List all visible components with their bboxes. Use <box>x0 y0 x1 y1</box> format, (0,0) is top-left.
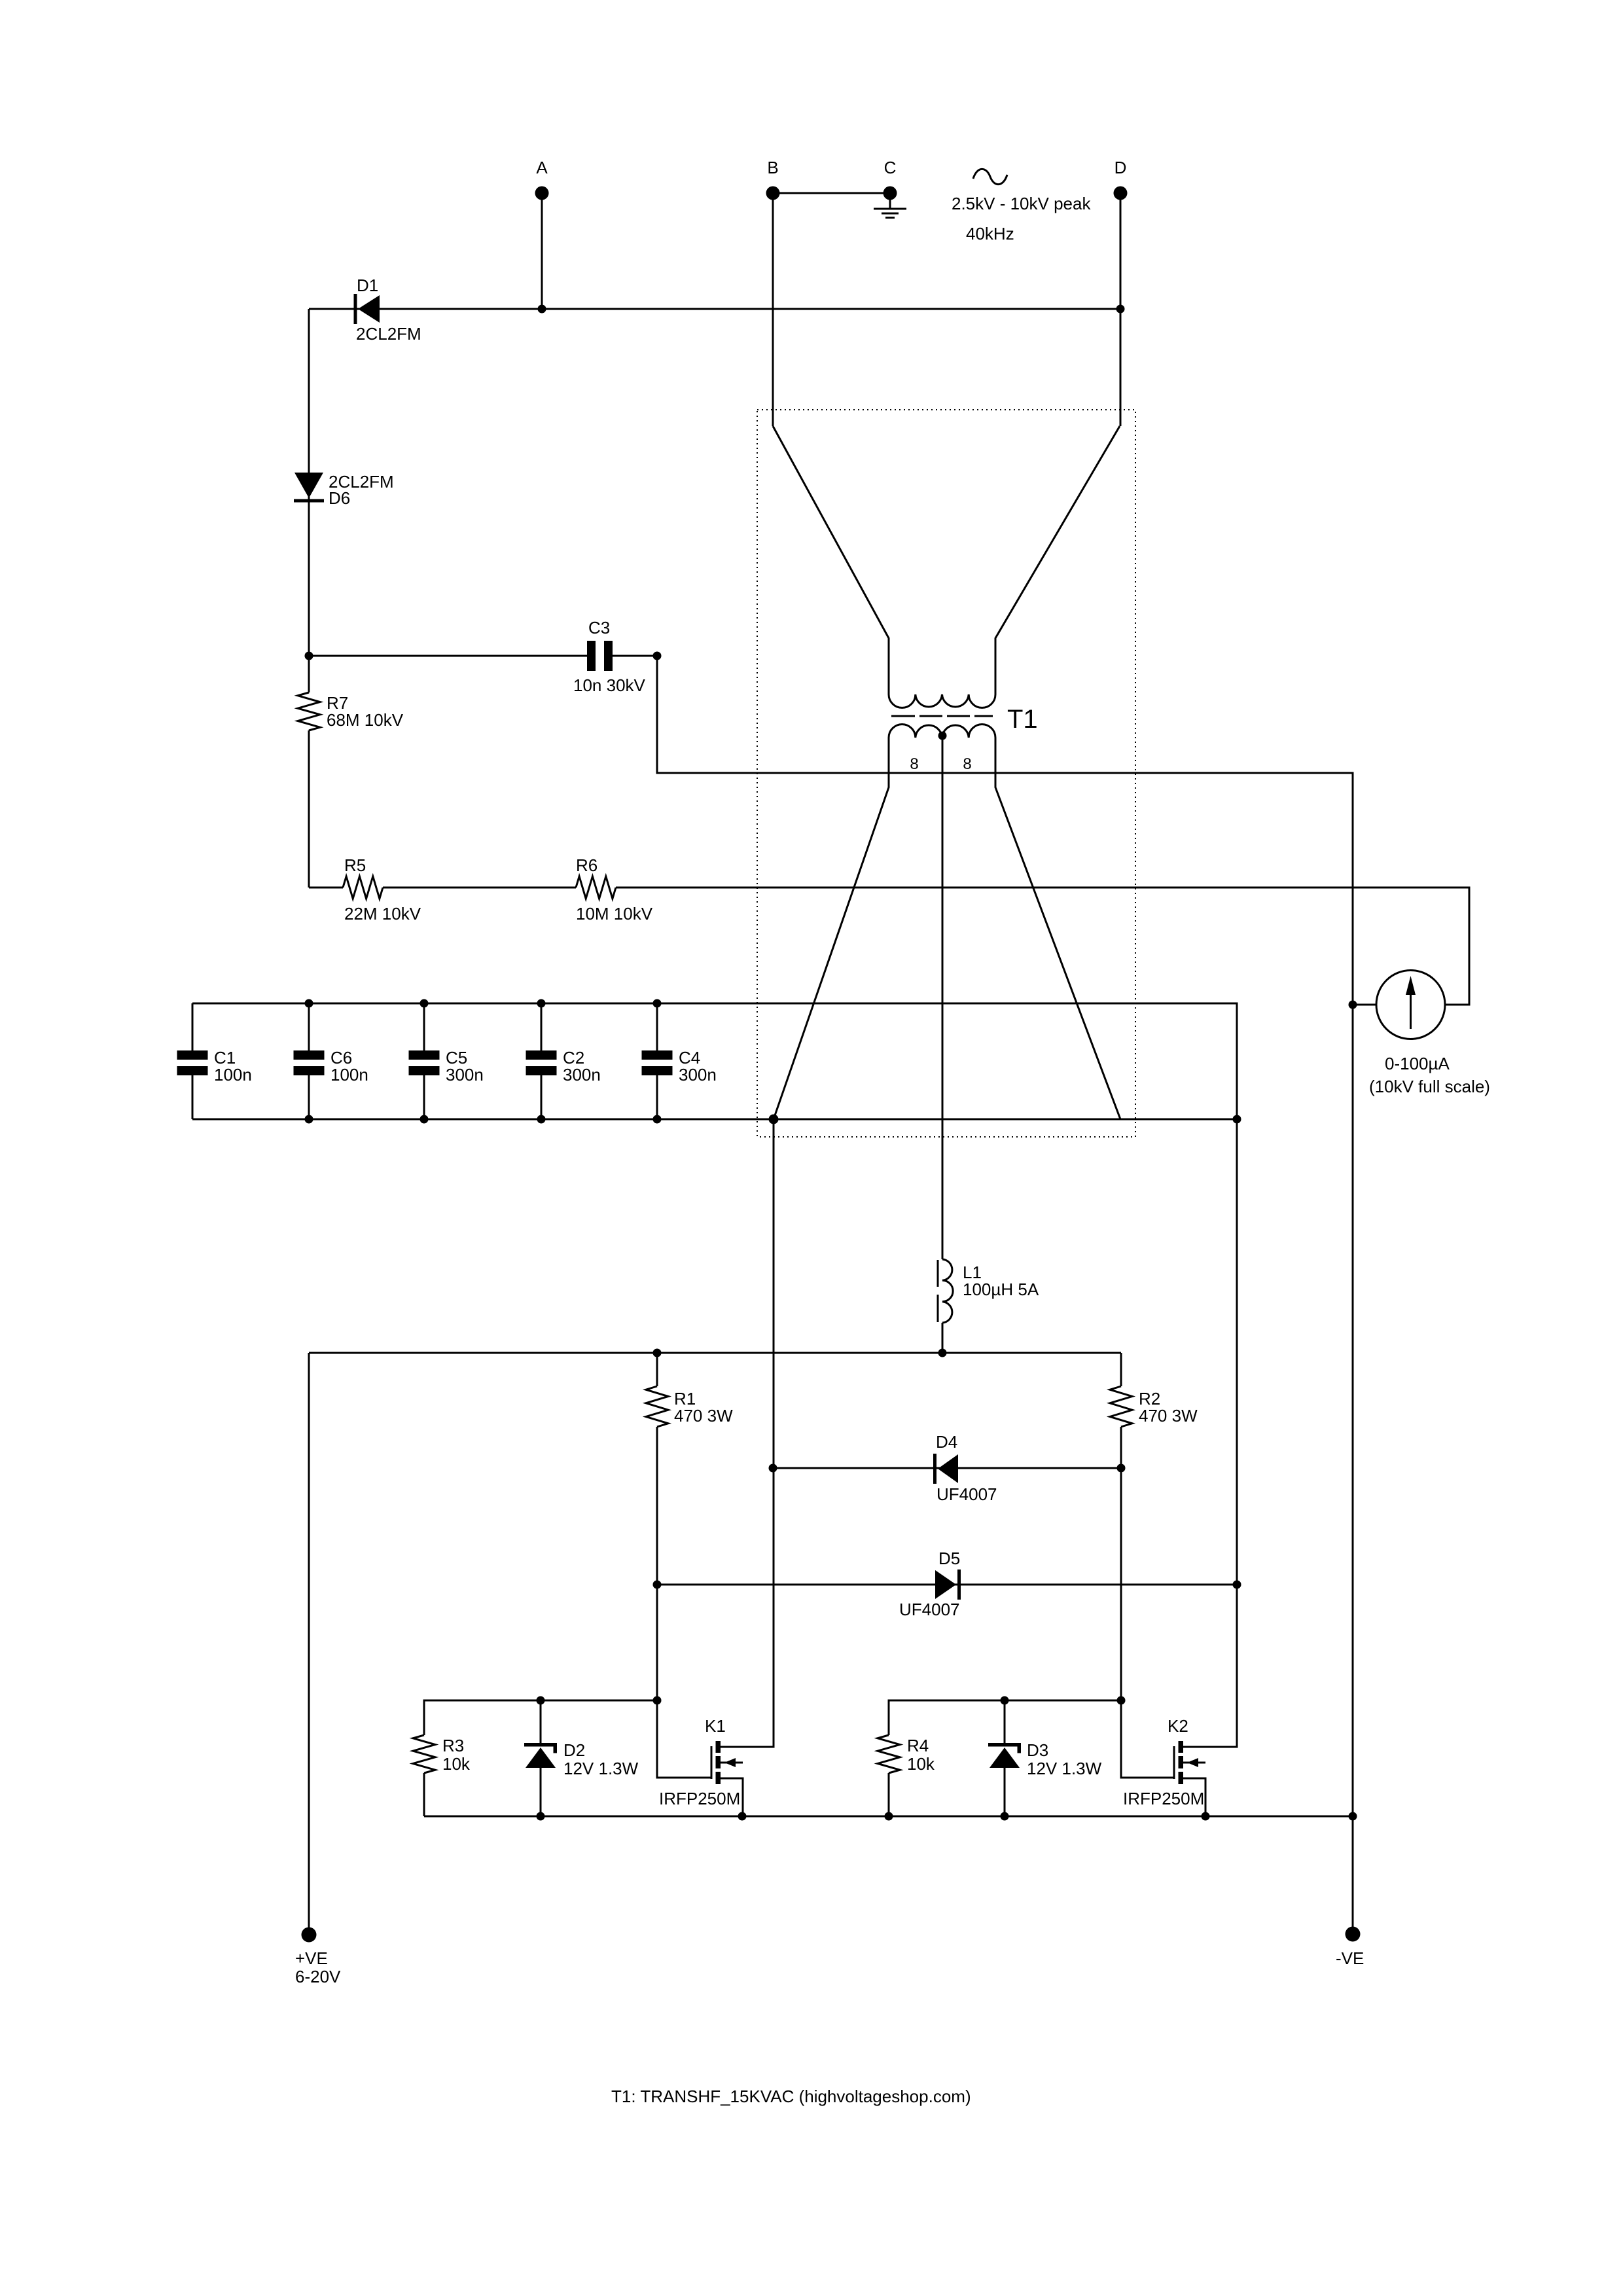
svg-text:100n: 100n <box>214 1065 252 1085</box>
svg-text:T1: T1 <box>1007 705 1038 734</box>
svg-text:T1: TRANSHF_15KVAC (highvoltag: T1: TRANSHF_15KVAC (highvoltageshop.com) <box>611 2087 971 2106</box>
svg-text:300n: 300n <box>446 1065 484 1085</box>
svg-text:68M 10kV: 68M 10kV <box>327 710 404 730</box>
svg-text:2CL2FM: 2CL2FM <box>356 324 421 344</box>
svg-text:D4: D4 <box>936 1432 957 1452</box>
svg-text:100µH 5A: 100µH 5A <box>963 1280 1039 1299</box>
svg-text:A: A <box>536 158 548 177</box>
svg-text:R4: R4 <box>907 1736 929 1755</box>
svg-text:R6: R6 <box>576 855 597 875</box>
svg-text:300n: 300n <box>563 1065 601 1085</box>
svg-text:D2: D2 <box>563 1740 585 1760</box>
svg-text:8: 8 <box>910 755 918 773</box>
svg-text:UF4007: UF4007 <box>899 1600 960 1619</box>
svg-text:K1: K1 <box>705 1716 726 1736</box>
svg-text:D6: D6 <box>329 488 350 508</box>
svg-text:10M 10kV: 10M 10kV <box>576 904 653 924</box>
svg-text:12V 1.3W: 12V 1.3W <box>563 1759 639 1778</box>
svg-text:6-20V: 6-20V <box>295 1967 341 1986</box>
svg-text:B: B <box>767 158 778 177</box>
svg-text:D: D <box>1115 158 1127 177</box>
svg-text:0-100µA: 0-100µA <box>1385 1054 1450 1073</box>
svg-text:300n: 300n <box>679 1065 717 1085</box>
svg-text:100n: 100n <box>330 1065 368 1085</box>
svg-text:D1: D1 <box>357 276 378 295</box>
svg-text:-VE: -VE <box>1336 1948 1364 1968</box>
svg-text:UF4007: UF4007 <box>936 1484 997 1504</box>
svg-text:2.5kV - 10kV peak: 2.5kV - 10kV peak <box>952 194 1091 213</box>
svg-text:22M 10kV: 22M 10kV <box>344 904 421 924</box>
svg-text:K2: K2 <box>1168 1716 1188 1736</box>
svg-text:+VE: +VE <box>295 1948 328 1968</box>
svg-text:D5: D5 <box>938 1549 960 1568</box>
svg-text:470 3W: 470 3W <box>1139 1406 1198 1426</box>
svg-text:8: 8 <box>963 755 971 773</box>
svg-text:IRFP250M: IRFP250M <box>1123 1789 1204 1808</box>
svg-text:40kHz: 40kHz <box>966 224 1014 243</box>
svg-text:IRFP250M: IRFP250M <box>659 1789 740 1808</box>
svg-text:R5: R5 <box>344 855 366 875</box>
svg-text:(10kV full scale): (10kV full scale) <box>1369 1077 1490 1096</box>
svg-text:470 3W: 470 3W <box>674 1406 733 1426</box>
svg-text:C3: C3 <box>588 618 610 637</box>
svg-text:10k: 10k <box>442 1754 471 1774</box>
svg-text:D3: D3 <box>1027 1740 1048 1760</box>
svg-text:12V 1.3W: 12V 1.3W <box>1027 1759 1102 1778</box>
svg-text:10k: 10k <box>907 1754 935 1774</box>
svg-text:R3: R3 <box>442 1736 464 1755</box>
svg-text:10n 30kV: 10n 30kV <box>573 675 646 695</box>
svg-text:C: C <box>884 158 897 177</box>
